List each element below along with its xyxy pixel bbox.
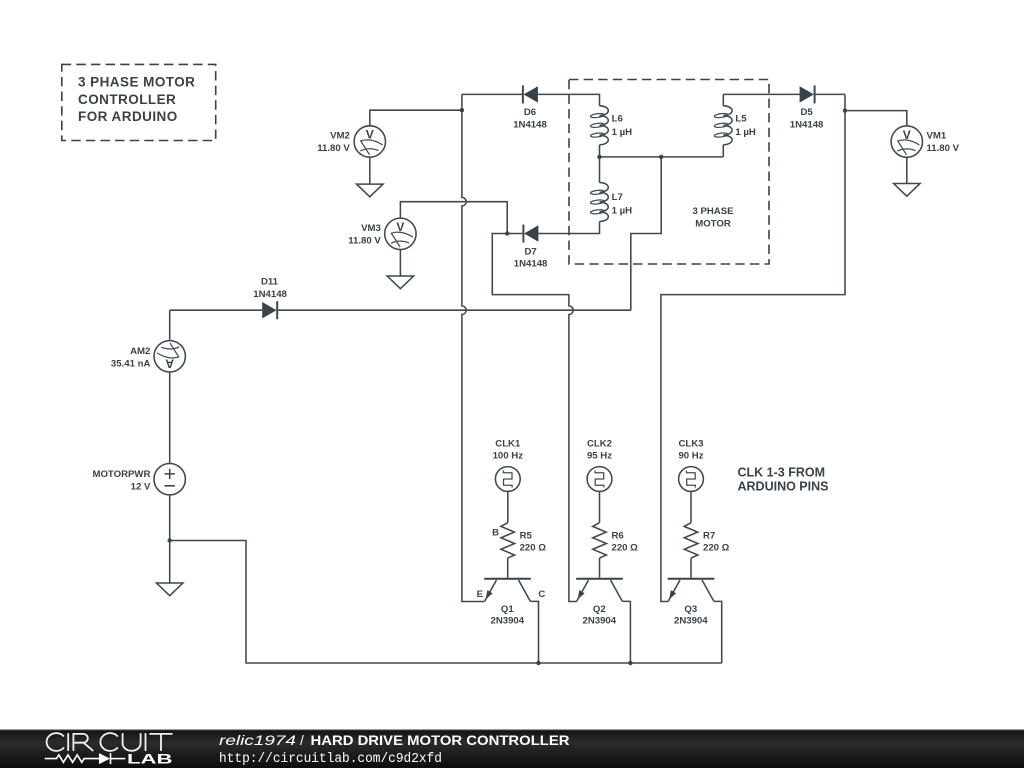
diode D11 xyxy=(262,301,277,319)
voltmeter VM2 xyxy=(354,126,385,157)
svg-text:R5: R5 xyxy=(520,531,533,542)
svg-text:V: V xyxy=(396,220,404,234)
svg-text:D11: D11 xyxy=(261,277,279,288)
3 phase motor dashed box xyxy=(569,80,769,265)
transistor Q2 xyxy=(576,579,623,602)
source MOTORPWR xyxy=(154,464,185,495)
svg-text:90 Hz: 90 Hz xyxy=(678,451,703,462)
resistor R7 xyxy=(684,523,698,558)
svg-text:11.80 V: 11.80 V xyxy=(348,235,381,246)
transistor Q3 xyxy=(668,579,715,602)
wire R7 to Q3 base xyxy=(690,558,692,578)
wire R5 to Q1 base xyxy=(507,558,509,578)
footer bar xyxy=(0,729,1024,768)
svg-text:VM1: VM1 xyxy=(927,131,947,142)
wire VM3 branch xyxy=(400,202,507,234)
svg-text:http://circuitlab.com/c9d2xfd: http://circuitlab.com/c9d2xfd xyxy=(219,752,442,767)
svg-text:220 Ω: 220 Ω xyxy=(703,542,730,553)
wire top left to D6 xyxy=(462,93,523,95)
clock CLK2 xyxy=(587,467,612,492)
wire D11 row xyxy=(170,309,263,311)
svg-text:A: A xyxy=(165,357,174,371)
wire L6 bottom xyxy=(599,145,601,157)
svg-text:FOR ARDUINO: FOR ARDUINO xyxy=(78,109,178,124)
wire D6 to L6 xyxy=(538,94,600,105)
wire R6 to Q2 base xyxy=(599,558,601,578)
logo squiggle resistor diode xyxy=(45,753,126,764)
svg-text:100 Hz: 100 Hz xyxy=(493,451,524,462)
svg-text:B: B xyxy=(492,528,499,539)
svg-text:11.80 V: 11.80 V xyxy=(927,143,960,154)
wire L5 top to D5 xyxy=(723,93,800,95)
wire L7 bottom to D7 anode xyxy=(538,222,599,234)
node Q2 collector bottom xyxy=(628,661,632,665)
resistor R5 xyxy=(501,523,515,558)
svg-text:D7: D7 xyxy=(524,246,536,257)
svg-text:1N4148: 1N4148 xyxy=(790,119,824,130)
voltmeter VM1 xyxy=(891,126,922,157)
node VM1 tee xyxy=(843,108,847,112)
wire D7 node down to Q2 emitter with hop xyxy=(492,234,576,602)
svg-text:35.41 nA: 35.41 nA xyxy=(111,358,151,369)
svg-text:1 µH: 1 µH xyxy=(735,127,756,138)
svg-text:1 µH: 1 µH xyxy=(612,127,633,138)
svg-text:1N4148: 1N4148 xyxy=(253,289,287,300)
wire CLK2 to R6 xyxy=(599,491,601,522)
ammeter AM2 xyxy=(154,341,185,372)
svg-text:CLK2: CLK2 xyxy=(587,439,612,450)
wire Q1 collector xyxy=(530,601,538,663)
clock CLK1 xyxy=(495,467,520,492)
ground VM1 xyxy=(894,184,920,197)
node VM2 tee xyxy=(460,108,464,112)
wire VM2 branch xyxy=(370,110,462,126)
svg-text:CLK1: CLK1 xyxy=(495,439,521,450)
wire Q2 collector xyxy=(622,601,630,663)
svg-text:220 Ω: 220 Ω xyxy=(612,542,639,553)
diode D5 xyxy=(800,85,815,103)
svg-text:HARD DRIVE MOTOR CONTROLLER: HARD DRIVE MOTOR CONTROLLER xyxy=(311,733,570,748)
svg-text:220 Ω: 220 Ω xyxy=(520,542,547,553)
svg-text:R7: R7 xyxy=(703,531,715,542)
diode D6 xyxy=(523,85,538,103)
svg-text:D6: D6 xyxy=(524,107,536,118)
svg-text:Q3: Q3 xyxy=(684,604,697,615)
svg-text:Q1: Q1 xyxy=(501,604,514,615)
clock CLK3 xyxy=(679,467,704,492)
svg-text:CLK3: CLK3 xyxy=(678,439,703,450)
svg-text:95 Hz: 95 Hz xyxy=(587,451,612,462)
wire VM1 branch xyxy=(845,111,907,126)
svg-text:L5: L5 xyxy=(735,114,747,125)
wire bottom return run xyxy=(170,541,722,664)
svg-text:E: E xyxy=(477,589,484,600)
wire Q3 collector xyxy=(714,601,722,663)
wire right bus down and to Q3 emitter xyxy=(661,94,845,601)
resistor R6 xyxy=(593,523,607,558)
wire left bus vertical with hops xyxy=(462,94,485,601)
svg-text:ARDUINO PINS: ARDUINO PINS xyxy=(738,479,829,493)
wire center tap down xyxy=(631,157,661,310)
inductor L5 xyxy=(722,94,724,105)
node Q1 collector bottom xyxy=(536,661,540,665)
node VM3 D7 junction xyxy=(505,231,509,235)
svg-text:11.80 V: 11.80 V xyxy=(317,143,350,154)
wire D5 to right bus corner xyxy=(815,93,845,95)
svg-text:MOTOR: MOTOR xyxy=(695,218,731,229)
node center tap junction xyxy=(659,155,663,159)
footer top border xyxy=(0,729,1024,730)
svg-text:Q2: Q2 xyxy=(593,604,606,615)
logo CIRCUIT xyxy=(47,733,173,751)
transistor Q1 xyxy=(484,579,531,602)
node L6 L7 junction xyxy=(597,155,601,159)
svg-text:12 V: 12 V xyxy=(131,481,151,492)
wire CLK1 to R5 xyxy=(507,491,509,522)
wire node to ground xyxy=(169,541,171,584)
inductor L6 xyxy=(590,106,608,145)
svg-text:C: C xyxy=(538,589,545,600)
svg-text:relic1974: relic1974 xyxy=(219,733,296,748)
svg-text:3 PHASE: 3 PHASE xyxy=(692,206,734,217)
svg-text:/: / xyxy=(300,733,304,748)
svg-text:D5: D5 xyxy=(800,107,813,118)
ground VM3 xyxy=(387,276,413,289)
svg-text:VM2: VM2 xyxy=(330,131,350,142)
inductor L7 xyxy=(599,157,601,183)
node MOTORPWR ground tee xyxy=(168,538,172,542)
svg-text:2N3904: 2N3904 xyxy=(490,615,524,626)
svg-text:1N4148: 1N4148 xyxy=(513,119,547,130)
svg-text:V: V xyxy=(366,128,374,142)
ground MOTORPWR xyxy=(157,583,183,596)
svg-text:1N4148: 1N4148 xyxy=(514,259,548,270)
svg-text:1 µH: 1 µH xyxy=(612,206,633,217)
wire VM2 to ground xyxy=(369,157,371,184)
svg-text:R6: R6 xyxy=(612,531,624,542)
svg-text:2N3904: 2N3904 xyxy=(582,615,616,626)
svg-text:2N3904: 2N3904 xyxy=(674,615,708,626)
wire D11 to center tap column xyxy=(277,309,631,311)
title box xyxy=(62,64,216,140)
wire MOTORPWR to node xyxy=(169,495,171,541)
svg-text:V: V xyxy=(903,128,911,142)
wire D7 cathode to node xyxy=(507,233,523,235)
svg-text:3 PHASE MOTOR: 3 PHASE MOTOR xyxy=(78,75,195,90)
svg-text:L6: L6 xyxy=(612,114,623,125)
svg-text:VM3: VM3 xyxy=(361,223,381,234)
wire L5 bottom xyxy=(722,145,724,157)
wire CLK3 to R7 xyxy=(690,491,692,522)
svg-text:AM2: AM2 xyxy=(130,346,150,357)
svg-text:MOTORPWR: MOTORPWR xyxy=(92,469,150,480)
wire VM1 to ground xyxy=(906,157,908,183)
svg-text:CONTROLLER: CONTROLLER xyxy=(78,92,176,107)
ground VM2 xyxy=(357,184,383,197)
svg-text:L7: L7 xyxy=(612,192,623,203)
wire middle horizontal xyxy=(600,156,724,158)
wire AM2 column xyxy=(169,310,171,340)
wire AM2 to MOTORPWR xyxy=(169,372,171,464)
diode D7 xyxy=(523,225,538,243)
wire VM3 to ground xyxy=(399,250,401,276)
svg-text:LAB: LAB xyxy=(127,750,173,766)
voltmeter VM3 xyxy=(385,218,416,249)
svg-text:CLK 1-3 FROM: CLK 1-3 FROM xyxy=(738,465,826,479)
